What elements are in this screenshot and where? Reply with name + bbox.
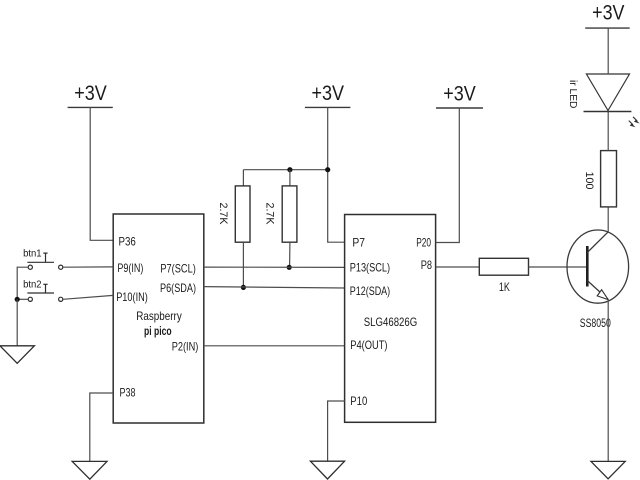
wire btn2 to pico P10(IN): [63, 295, 113, 299]
svg-text:SLG46826G: SLG46826G: [364, 315, 418, 329]
wire R4 to LED cathode: [607, 112, 609, 151]
svg-text:Raspberry: Raspberry: [136, 309, 182, 323]
svg-text:P36: P36: [119, 235, 137, 249]
resistor R2 2.7K: [264, 170, 297, 268]
junction rail / R2: [287, 167, 292, 172]
svg-text:btn2: btn2: [23, 278, 42, 290]
svg-text:+3V: +3V: [443, 83, 476, 106]
wire SLG P10 to ground: [328, 401, 345, 461]
svg-text:P12(SDA): P12(SDA): [350, 284, 391, 298]
ground (P38): [72, 461, 107, 479]
svg-text:P2(IN): P2(IN): [172, 340, 199, 354]
pushbutton btn2: [27, 284, 62, 301]
svg-text:pi pico: pi pico: [144, 326, 172, 338]
pushbutton btn1: [27, 253, 62, 269]
svg-text:P6(SDA): P6(SDA): [160, 281, 196, 295]
svg-text:P7(SCL): P7(SCL): [160, 262, 195, 276]
svg-text:P38: P38: [120, 385, 136, 399]
svg-text:P10: P10: [350, 394, 367, 408]
svg-text:SS8050: SS8050: [580, 316, 611, 330]
wire SDA: pico P6(SDA) to SLG P12(SDA): [204, 287, 345, 288]
+3V supply net (feeds pico P36): [68, 82, 113, 107]
resistor R3 1K: [479, 258, 528, 294]
wire ground rail down: [16, 299, 18, 346]
+3V supply net (pull-ups and SLG P7): [305, 82, 351, 107]
junction R2 / SCL: [287, 265, 292, 270]
svg-text:P9(IN): P9(IN): [117, 261, 143, 275]
junction R1 / SDA: [241, 285, 246, 290]
wire btn2 to ground rail: [17, 298, 28, 300]
svg-text:2.7K: 2.7K: [217, 203, 229, 226]
svg-text:+3V: +3V: [592, 2, 624, 25]
ground (SLG P10): [310, 461, 344, 479]
SLG46826G block U2: [345, 215, 436, 423]
wire btn1 to pico P9(IN): [63, 266, 113, 268]
svg-text:1K: 1K: [499, 282, 510, 294]
svg-text:P8: P8: [421, 258, 433, 272]
wire R3 to Q1 base: [529, 266, 588, 268]
LED emission arrow 1: [633, 117, 640, 124]
svg-text:+3V: +3V: [74, 82, 107, 105]
svg-text:P13(SCL): P13(SCL): [350, 261, 390, 275]
svg-text:btn1: btn1: [23, 248, 42, 260]
svg-text:P4(OUT): P4(OUT): [350, 338, 387, 352]
svg-text:P10(IN): P10(IN): [116, 290, 148, 304]
wire +3V down to SLG P7: [328, 107, 345, 242]
svg-text:P20: P20: [416, 236, 431, 250]
+3V supply net (LED): [585, 2, 630, 29]
wire SLG P8 to R3: [436, 266, 480, 268]
wire +3V to LED anode: [607, 28, 609, 74]
wire SCL: pico P7(SCL) to SLG P13(SCL): [204, 266, 345, 268]
wire Q1 collector to R4: [607, 207, 609, 232]
junction rail / +3V: [325, 167, 330, 172]
svg-text:+3V: +3V: [311, 82, 344, 105]
LED emission arrow 2: [629, 121, 636, 128]
Raspberry Pi Pico block U1: [113, 214, 204, 423]
ground (buttons): [0, 346, 34, 364]
transistor Q1 SS8050: [567, 230, 629, 303]
wire pico P38 to ground: [90, 393, 113, 461]
svg-text:P7: P7: [352, 236, 365, 250]
+3V supply net (SLG P20): [436, 83, 483, 109]
wire P20 to +3V: [436, 108, 460, 243]
wire Q1 emitter to ground: [607, 300, 609, 462]
wire btn1 to ground rail: [17, 267, 28, 299]
svg-text:ir LED: ir LED: [567, 80, 579, 109]
ground (Q1 emitter): [591, 461, 625, 478]
wire pico P2(IN) to SLG P4(OUT): [204, 345, 345, 347]
LED D1 ir LED: [567, 74, 631, 112]
svg-text:2.7K: 2.7K: [264, 203, 276, 226]
resistor R1 2.7K: [217, 170, 250, 288]
svg-text:100: 100: [583, 172, 595, 190]
wire +3V to P36: [90, 107, 113, 240]
junction btn2 / ground rail: [15, 297, 20, 302]
resistor R4 100: [583, 151, 617, 207]
wire pull-up rail: [243, 169, 327, 171]
